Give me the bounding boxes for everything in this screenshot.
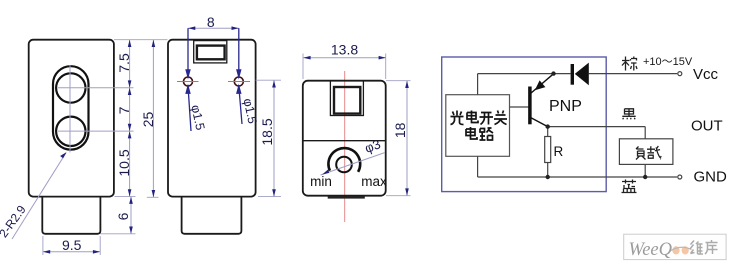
svg-text:9.5: 9.5 [62,237,82,253]
svg-text:25: 25 [140,112,156,128]
svg-text:min: min [310,174,332,189]
svg-text:6: 6 [115,212,131,220]
svg-text:10.5: 10.5 [116,149,132,176]
svg-text:18.5: 18.5 [259,118,275,145]
svg-text:max: max [361,174,387,189]
svg-text:7: 7 [116,106,132,114]
svg-text:GND: GND [694,168,728,185]
svg-text:+10～15V: +10～15V [643,56,693,68]
svg-text:OUT: OUT [691,118,723,135]
svg-text:R: R [554,144,564,159]
svg-text:WeeQ: WeeQ [629,240,673,260]
svg-text:Vcc: Vcc [693,66,719,83]
svg-text:18: 18 [392,122,408,138]
svg-text:PNP: PNP [549,98,582,115]
svg-text:7.5: 7.5 [116,53,132,73]
svg-text:13.8: 13.8 [331,42,358,58]
svg-text:8: 8 [207,14,215,30]
